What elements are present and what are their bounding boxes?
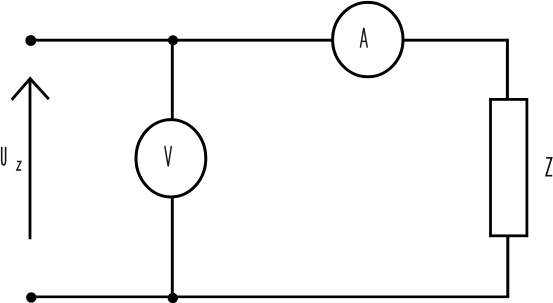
node: top junction dot at voltmeter branch — [168, 35, 178, 45]
voltage source arrow Uz (shaft) — [29, 79, 32, 240]
wire: voltmeter branch vertical — [171, 39, 174, 298]
node: top-left terminal dot — [25, 35, 36, 46]
label U (source voltage) — [2, 147, 6, 165]
wire: bottom rail from left terminal to right lead — [30, 295, 509, 298]
wire: right vertical from top rail to impedance Z — [506, 39, 509, 100]
label Z (impedance value) — [546, 158, 552, 176]
ammeter U1 circle — [333, 2, 403, 76]
wire: top rail from left terminal to top-right corner — [30, 39, 509, 42]
voltmeter U2 circle — [136, 120, 206, 197]
voltage source arrow Uz (head wings) — [12, 79, 49, 100]
label V (voltmeter) — [165, 146, 172, 167]
impedance Z1 rectangle — [491, 99, 527, 235]
label A (ammeter) — [360, 28, 367, 48]
label z (subscript of U) — [17, 161, 21, 170]
node: bottom-left terminal dot — [26, 292, 36, 302]
node: bottom junction dot at voltmeter branch — [168, 293, 178, 303]
wire: impedance Z bottom lead to bottom rail — [506, 235, 509, 298]
